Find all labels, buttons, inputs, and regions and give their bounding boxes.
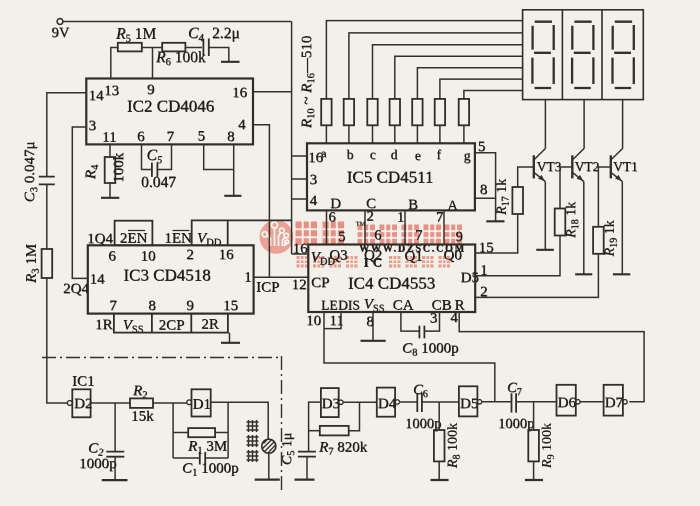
- svg-text:9: 9: [455, 229, 462, 245]
- IC2 box: [86, 79, 253, 145]
- wire IC2 pin16 to rail: [253, 91, 292, 93]
- svg-text:Q3: Q3: [329, 248, 347, 264]
- svg-text:TM: TM: [356, 221, 366, 228]
- wire D3 input node: [309, 402, 321, 451]
- wire IC5 pin5: [475, 153, 496, 221]
- wire IC2 pin9 up: [152, 48, 154, 79]
- svg-text:B: B: [408, 197, 418, 213]
- svg-text:9: 9: [186, 298, 194, 314]
- wire R3 down to D2 input: [47, 278, 68, 403]
- svg-text:4: 4: [450, 310, 458, 326]
- ground C2: [102, 479, 128, 481]
- inverter D6 bubble: [576, 400, 580, 404]
- wire R8 tap: [438, 402, 440, 430]
- resistor R10: [321, 99, 331, 125]
- collector diagonal: [572, 149, 584, 161]
- wire C4 to ground: [209, 48, 228, 62]
- inverter D3 box: [321, 388, 339, 417]
- wire e: [417, 68, 522, 99]
- watermark logo circle: [260, 220, 294, 254]
- svg-text:1EN: 1EN: [164, 231, 192, 247]
- svg-text:6: 6: [374, 228, 381, 244]
- notch box VSS 2CP 2R: [114, 314, 228, 333]
- VT2 emitter arrow: [577, 175, 584, 181]
- wire b: [349, 33, 523, 99]
- resistor R14: [412, 99, 422, 125]
- resistor R12: [367, 99, 377, 125]
- svg-text:12: 12: [292, 277, 307, 293]
- svg-text:R9 100k: R9 100k: [540, 423, 557, 469]
- wire D1 output junction down: [227, 402, 229, 458]
- svg-text:IC5 CD4511: IC5 CD4511: [347, 168, 434, 187]
- svg-text:8: 8: [148, 298, 156, 314]
- display box: [523, 10, 644, 100]
- svg-text:2: 2: [480, 284, 488, 300]
- transistor VT1: [598, 100, 622, 274]
- svg-text:1: 1: [397, 210, 404, 226]
- inverter D4 bubble: [395, 400, 399, 404]
- transistor VT3: [518, 100, 546, 250]
- wires resistor bottoms to IC5: [326, 125, 464, 143]
- svg-text:15k: 15k: [131, 409, 154, 425]
- ground VT2: [575, 273, 592, 275]
- svg-text:VT1: VT1: [613, 159, 638, 174]
- svg-text:f: f: [436, 147, 441, 162]
- base wire to R17: [518, 167, 534, 187]
- svg-text:8: 8: [480, 182, 488, 198]
- wire digit3 to VT1 collector: [622, 100, 624, 149]
- svg-text:1R: 1R: [95, 317, 113, 333]
- svg-text:d: d: [391, 147, 398, 162]
- sensor hatch: [263, 440, 276, 453]
- svg-text:15: 15: [223, 298, 238, 314]
- svg-text:1: 1: [244, 270, 252, 286]
- resistor R6: [162, 43, 185, 52]
- wire D3 to D4: [343, 401, 377, 403]
- resistor R11: [344, 99, 354, 125]
- svg-text:IC2 CD4046: IC2 CD4046: [127, 97, 214, 116]
- svg-text:Q0: Q0: [443, 248, 461, 264]
- svg-text:VT3: VT3: [537, 159, 562, 174]
- svg-text:LE: LE: [321, 298, 338, 313]
- svg-text:5: 5: [338, 229, 345, 245]
- resistor R16: [459, 99, 469, 125]
- svg-text:R1 3M: R1 3M: [187, 439, 227, 457]
- resistor R5: [118, 43, 142, 52]
- wire stub to IC4 pin16: [292, 253, 309, 255]
- svg-text:16: 16: [219, 247, 235, 263]
- svg-text:8: 8: [227, 129, 235, 145]
- svg-text:7: 7: [167, 129, 175, 145]
- wire DIS pin11: [324, 312, 341, 329]
- watermark bottom slogan row: [296, 256, 309, 269]
- svg-text:4: 4: [310, 193, 318, 209]
- wire C3 to R3: [46, 185, 48, 249]
- wire IC2 pin13 up: [111, 48, 118, 79]
- capacitor C3: [39, 177, 55, 185]
- svg-text:Q1: Q1: [404, 249, 422, 265]
- wire R1 right lead: [215, 432, 228, 434]
- svg-text:R5 1M: R5 1M: [115, 26, 156, 45]
- base bar: [610, 155, 612, 178]
- base wire to R18: [560, 167, 572, 209]
- wire C5 to pin7: [157, 144, 171, 169]
- svg-text:IC1: IC1: [72, 374, 95, 390]
- wire D5 to C7: [482, 401, 511, 403]
- ground IC2 pin8: [224, 195, 241, 197]
- wire a: [326, 21, 522, 99]
- svg-text:0.047: 0.047: [141, 174, 176, 191]
- ground R8: [431, 479, 449, 481]
- ground pin15: [221, 342, 240, 344]
- wire R18 bottom to IC4 pin1: [475, 236, 560, 276]
- svg-text:D7: D7: [605, 395, 624, 411]
- svg-text:9: 9: [147, 82, 155, 98]
- wire R4 to ground: [109, 183, 111, 197]
- svg-text:11: 11: [102, 130, 116, 146]
- label sensor (rotated CJK): [247, 420, 259, 462]
- wire R5 to R6: [142, 47, 162, 49]
- svg-text:IC3 CD4518: IC3 CD4518: [123, 266, 210, 285]
- wire LE pin10: [324, 312, 495, 402]
- resistor R15: [435, 99, 445, 125]
- ground IC5 pin8: [486, 220, 504, 222]
- wire IC2 pin3 down to IC3 pin14: [72, 127, 88, 278]
- IC5 box: [307, 143, 475, 210]
- wire C7 to D6: [517, 401, 557, 403]
- svg-text:9V: 9V: [52, 25, 70, 41]
- wire A-Q0: [443, 210, 445, 244]
- wire IC2 pin8 to ground: [233, 144, 235, 195]
- svg-text:6: 6: [108, 249, 116, 265]
- svg-text:D5: D5: [460, 396, 478, 412]
- wire R8 to ground: [438, 461, 440, 479]
- svg-text:16: 16: [232, 85, 248, 101]
- wire sensor to ground: [268, 453, 270, 479]
- dash-dot boundary horizontal: [42, 357, 281, 359]
- base wire to R19: [598, 167, 610, 227]
- emitter diagonal: [611, 172, 623, 181]
- svg-text:7: 7: [415, 228, 422, 244]
- svg-text:2Q4: 2Q4: [63, 281, 89, 297]
- wire D6 to D7: [580, 401, 604, 403]
- svg-text:1000p: 1000p: [79, 456, 117, 472]
- capacitor C5 1u: [298, 452, 316, 457]
- wire digit2 to VT2 collector: [583, 100, 585, 149]
- emitter diagonal: [572, 172, 584, 181]
- resistor R13: [390, 99, 400, 125]
- svg-text:R6 100k: R6 100k: [155, 49, 206, 68]
- svg-text:IC4 CD4553: IC4 CD4553: [348, 274, 435, 293]
- wire IC2 pin6 to C5: [142, 144, 152, 169]
- svg-text:5: 5: [198, 129, 206, 145]
- inverter D4 box: [377, 388, 395, 417]
- collector diagonal: [534, 149, 546, 161]
- wire IC2 pin4 down to ICP: [253, 125, 269, 278]
- svg-text:4: 4: [238, 117, 246, 133]
- wire IC2 pin14 left and down to C3: [47, 93, 87, 177]
- wire c: [373, 45, 523, 99]
- svg-text:2: 2: [366, 209, 373, 225]
- wire C8 to CB pin3: [424, 312, 439, 331]
- svg-text:DIS: DIS: [338, 298, 360, 313]
- wire stub to IC5 pin3: [292, 178, 307, 180]
- collector diagonal: [611, 149, 623, 161]
- svg-text:C8 1000p: C8 1000p: [402, 341, 459, 359]
- svg-text:1Q4: 1Q4: [87, 231, 113, 247]
- capacitor C4: [203, 39, 208, 57]
- resistor R4: [105, 157, 116, 183]
- svg-text:c: c: [370, 147, 376, 162]
- notch box 2EN: [115, 221, 153, 246]
- ground sensor: [255, 479, 280, 481]
- capacitor C7: [512, 393, 517, 412]
- emitter wire down: [583, 182, 585, 274]
- wire R1C1 input tap: [172, 403, 174, 458]
- wire R7 left lead: [309, 430, 320, 432]
- inverter D6 box: [557, 385, 576, 416]
- svg-text:A: A: [447, 198, 458, 214]
- svg-text:D6: D6: [558, 395, 577, 411]
- wire C-Q2: [364, 210, 366, 244]
- svg-text:2R: 2R: [201, 317, 219, 333]
- wire R1 left lead: [173, 432, 188, 434]
- wire IC2 pin11 to R4: [109, 144, 111, 157]
- wire C5 to ground: [306, 457, 308, 479]
- inverter D3 bubble: [339, 400, 343, 404]
- svg-text:6: 6: [137, 129, 145, 145]
- svg-text:2.2μ: 2.2μ: [212, 25, 240, 42]
- wire stub to IC5 pin16: [292, 155, 307, 157]
- wire D-Q3: [326, 210, 328, 244]
- sensor circle: [262, 439, 276, 453]
- emitter wire down: [544, 182, 546, 250]
- svg-text:D5: D5: [461, 270, 479, 286]
- notch box VDD with wire to rail: [192, 220, 292, 245]
- svg-text:2EN: 2EN: [120, 231, 148, 247]
- ground R4: [101, 197, 119, 199]
- svg-text:a: a: [321, 146, 327, 160]
- wire R2 to D1: [153, 402, 187, 404]
- capacitor C2: [106, 452, 124, 457]
- wire stub to IC5 pin4: [292, 198, 307, 200]
- wire digit1 to VT3 collector: [544, 100, 546, 149]
- wire VSS pin8: [372, 312, 374, 340]
- overline 1EN: [173, 230, 190, 232]
- resistors R10-R16 wires: [326, 21, 522, 144]
- svg-text:C5 1μ: C5 1μ: [280, 433, 297, 465]
- wire ICP: [254, 276, 309, 278]
- base bar: [533, 155, 535, 178]
- svg-text:2: 2: [186, 247, 194, 263]
- resistor R1: [188, 428, 215, 437]
- ground R9: [525, 479, 543, 481]
- emitter diagonal: [534, 172, 546, 181]
- watermark big characters: [295, 221, 318, 246]
- inverter D1 box: [192, 389, 211, 416]
- wire R9 to ground: [533, 461, 535, 479]
- svg-text:D2: D2: [74, 396, 92, 412]
- VT1 emitter arrow: [615, 175, 622, 181]
- svg-text:14: 14: [89, 88, 105, 104]
- wire R19 bottom to IC4 pin2: [475, 254, 598, 298]
- svg-text:D1: D1: [193, 397, 211, 413]
- svg-text:R3 1M: R3 1M: [24, 244, 42, 284]
- wire d: [395, 56, 523, 99]
- inverter D5 bubble: [477, 400, 481, 404]
- svg-text:3: 3: [89, 118, 97, 134]
- wire 9V rail vertical: [291, 22, 293, 255]
- capacitor C8: [419, 326, 424, 339]
- svg-text:Q2: Q2: [364, 248, 382, 264]
- inverter D1 bubble: [187, 400, 192, 405]
- transistor VT2: [560, 100, 584, 274]
- inverter D2 bubble: [67, 401, 72, 406]
- svg-text:C1 1000p: C1 1000p: [182, 461, 239, 479]
- svg-text:3: 3: [430, 311, 438, 327]
- wire IC5 pin8: [475, 197, 496, 199]
- svg-text:D3: D3: [322, 396, 340, 412]
- svg-text:7: 7: [436, 210, 443, 226]
- svg-text:1: 1: [480, 263, 488, 279]
- svg-text:g: g: [464, 148, 471, 163]
- 7seg digit 1: [532, 22, 553, 88]
- svg-text:R7 820k: R7 820k: [318, 440, 368, 458]
- wire D1 out to sensor: [211, 402, 269, 439]
- base bar: [571, 155, 573, 178]
- resistor R19: [593, 227, 604, 254]
- svg-text:C3 0.047μ: C3 0.047μ: [22, 142, 40, 203]
- wire C1 right lead: [206, 457, 229, 459]
- wire C6 to D5: [422, 401, 459, 403]
- wire CA to C8: [401, 312, 419, 331]
- svg-text:ICP: ICP: [256, 280, 279, 296]
- wire D4 to C6: [400, 401, 417, 403]
- IC3 box: [88, 245, 254, 313]
- svg-text:D4: D4: [378, 396, 397, 412]
- svg-text:CA: CA: [393, 298, 414, 314]
- emitter wire down: [621, 182, 623, 274]
- capacitor C6: [417, 393, 422, 412]
- IC4 box: [308, 245, 475, 313]
- wire R6 to C4: [185, 47, 202, 49]
- wire R9 tap: [533, 402, 535, 430]
- svg-text:R8 100k: R8 100k: [446, 423, 463, 469]
- wire R17 bottom to IC4 pin15: [475, 214, 518, 253]
- overline 2EN: [128, 230, 145, 232]
- capacitor C1: [200, 452, 205, 465]
- ground C5: [295, 479, 315, 481]
- resistor R18: [555, 209, 566, 236]
- wire B-Q1: [404, 210, 406, 244]
- svg-text:VT2: VT2: [575, 159, 600, 174]
- svg-text:15: 15: [479, 240, 494, 256]
- wire R pin4 to D7 output: [459, 312, 644, 402]
- svg-text:e: e: [415, 148, 421, 163]
- ground VT3: [536, 249, 554, 251]
- inverter D7 bubble: [623, 400, 627, 404]
- svg-text:14: 14: [90, 272, 106, 288]
- display dividers: [562, 10, 602, 100]
- wire IC2 pin5 down-right: [204, 144, 234, 169]
- svg-text:16: 16: [293, 241, 309, 257]
- resistor R3: [42, 249, 53, 278]
- wire C2 tap: [114, 403, 116, 480]
- ground VT1: [613, 273, 630, 275]
- svg-text:7: 7: [109, 298, 117, 314]
- resistor R17: [512, 187, 523, 214]
- svg-text:2CP: 2CP: [159, 318, 185, 334]
- capacitor C5: [152, 163, 158, 177]
- svg-text:b: b: [347, 147, 354, 162]
- svg-text:3: 3: [310, 172, 318, 188]
- wire D2 out to R2: [91, 402, 130, 404]
- wire R7 right lead up to D3 out: [349, 402, 360, 430]
- resistor R7: [320, 426, 349, 436]
- wire f: [440, 79, 523, 99]
- wire pin15 to ground: [229, 333, 231, 343]
- dash-dot boundary vertical: [281, 356, 283, 492]
- inverter D2 box: [72, 389, 90, 417]
- resistor R9: [528, 430, 539, 461]
- wire C1 left lead: [173, 457, 199, 459]
- svg-text:10: 10: [141, 249, 156, 265]
- resistor R8: [434, 430, 445, 461]
- 7seg digit 2: [572, 22, 593, 88]
- 7seg digit 3: [613, 22, 634, 88]
- svg-text:13: 13: [104, 83, 119, 99]
- wire g: [464, 91, 523, 99]
- VT3 emitter arrow: [538, 175, 545, 181]
- svg-text:10: 10: [306, 313, 321, 329]
- ground VSS: [361, 340, 386, 342]
- inverter D5 box: [459, 386, 478, 416]
- wire 9V rail top: [63, 21, 292, 23]
- ground C4: [221, 61, 240, 63]
- svg-text:100k: 100k: [111, 153, 127, 184]
- resistor R2: [130, 398, 153, 408]
- svg-text:CP: CP: [311, 275, 329, 291]
- wires IC5 to IC4: [327, 210, 445, 244]
- svg-text:6: 6: [328, 210, 335, 226]
- inverter D7 box: [604, 385, 623, 416]
- 9V terminal: [57, 19, 63, 25]
